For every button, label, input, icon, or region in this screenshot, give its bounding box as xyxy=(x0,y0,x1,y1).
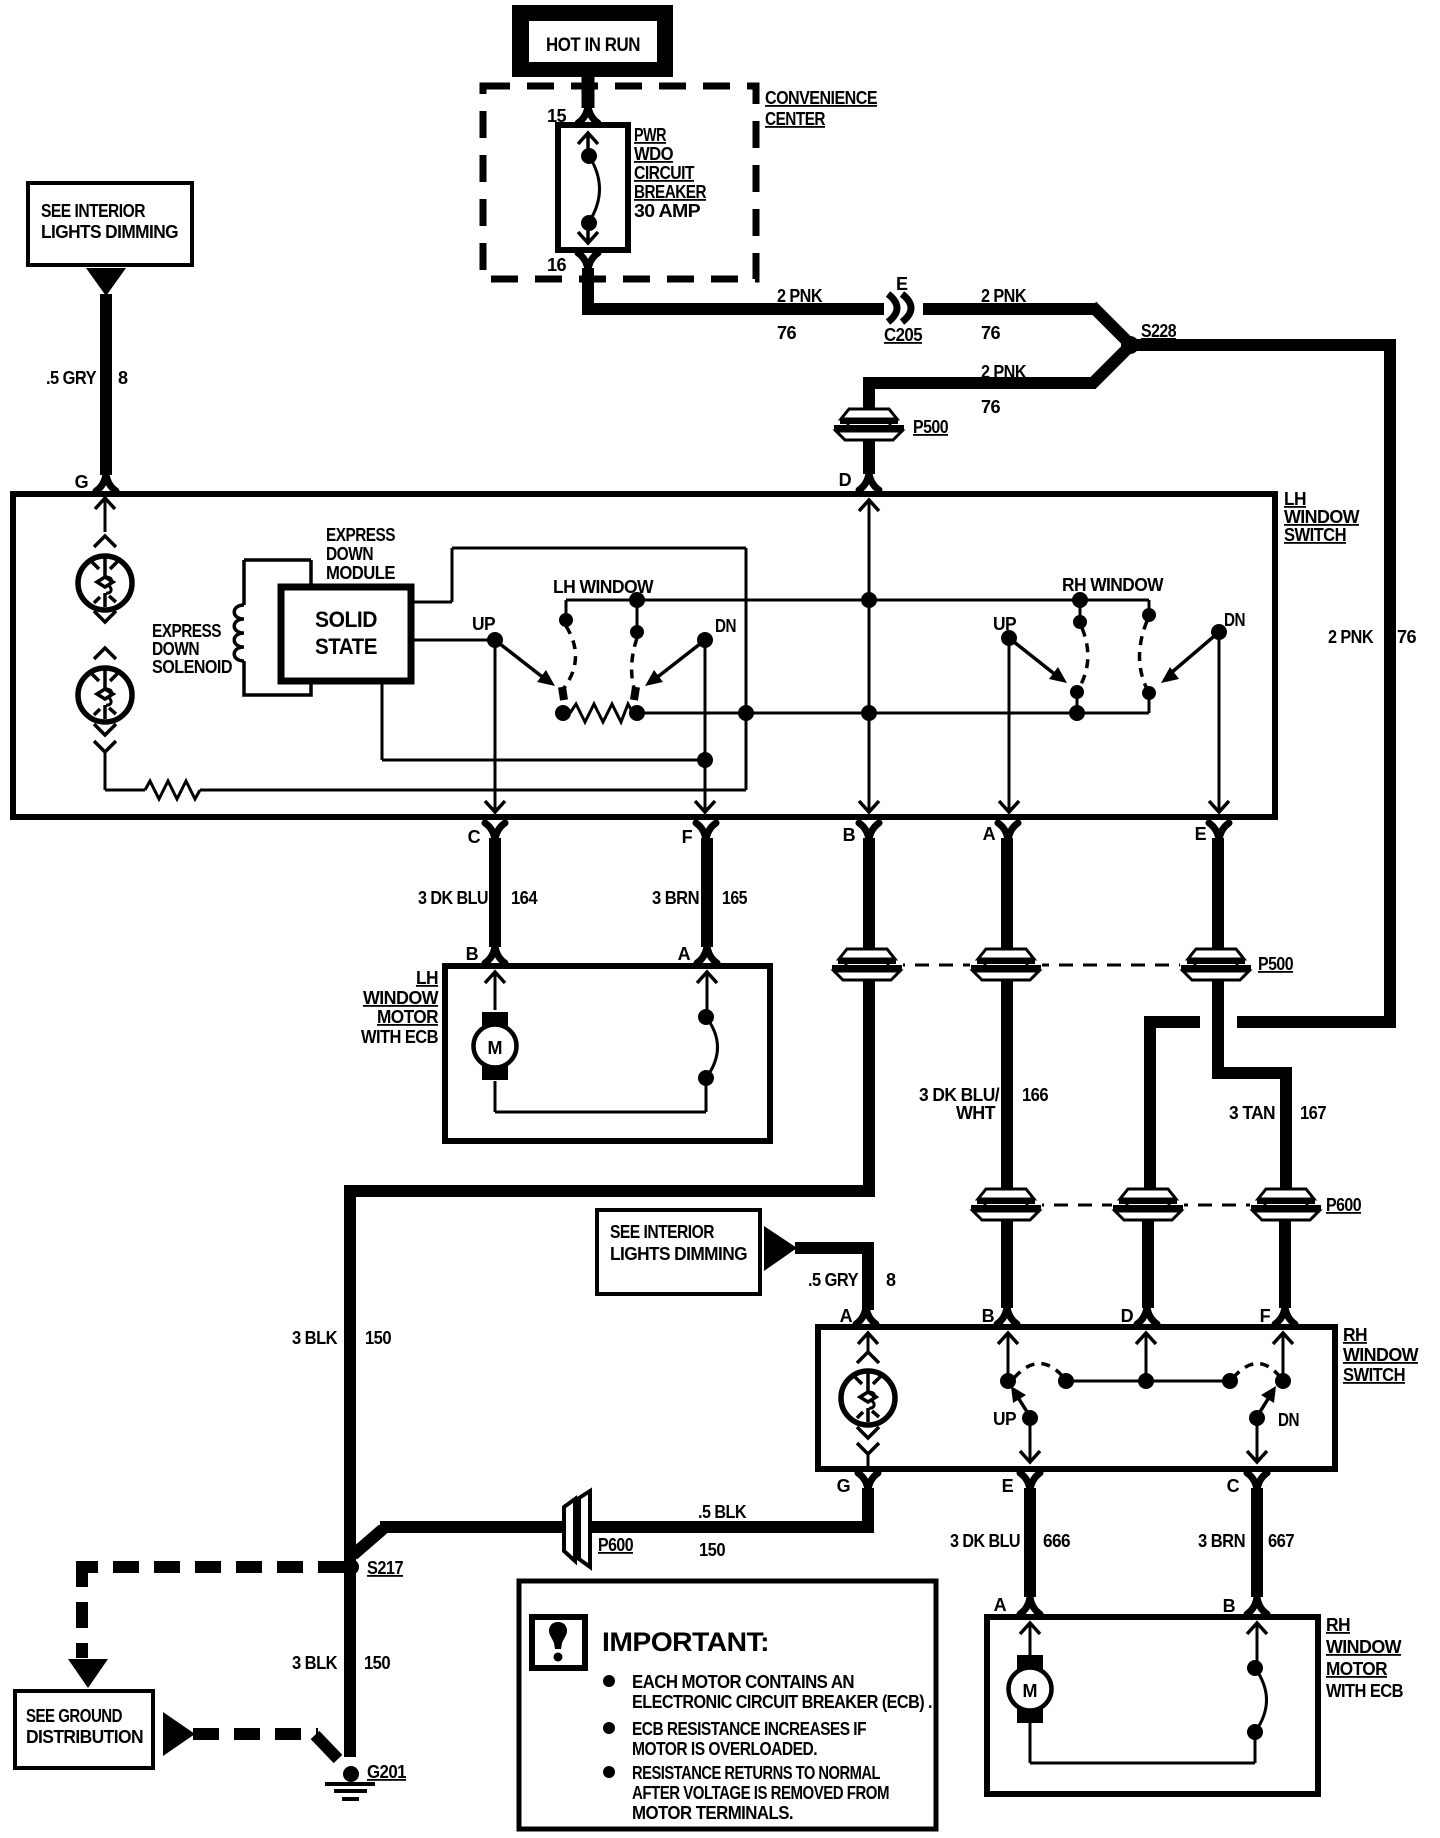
wire label 3 DK BLU/WHT 166 xyxy=(919,1085,1049,1123)
svg-text:P500: P500 xyxy=(1258,954,1294,974)
svg-text:WHT: WHT xyxy=(956,1103,996,1123)
RH window dashed contact arcs xyxy=(1079,621,1147,689)
label PWR WDO CIRCUIT BREAKER 30 AMP xyxy=(634,125,707,221)
svg-text:SWITCH: SWITCH xyxy=(1284,525,1346,545)
LH window motor box xyxy=(445,966,770,1141)
svg-text:LIGHTS DIMMING: LIGHTS DIMMING xyxy=(41,222,178,242)
svg-text:E: E xyxy=(896,274,908,294)
RH switch dashed arc F xyxy=(1233,1364,1281,1379)
svg-text:BREAKER: BREAKER xyxy=(634,182,707,202)
svg-text:3 DK BLU/: 3 DK BLU/ xyxy=(919,1085,1000,1105)
wire terminal A column xyxy=(999,638,1019,812)
svg-text:76: 76 xyxy=(777,323,797,343)
svg-text:HOT IN RUN: HOT IN RUN xyxy=(546,35,640,56)
svg-text:167: 167 xyxy=(1300,1103,1327,1123)
wire label .5 BLK 150 xyxy=(698,1502,747,1560)
connector row P500 xyxy=(831,949,1294,980)
RH window DN contact xyxy=(1142,624,1227,713)
svg-text:D: D xyxy=(839,470,852,490)
inline connector P600 (ground wire) xyxy=(564,1491,634,1567)
wire HOT IN RUN to breaker pin 15 xyxy=(578,77,598,123)
svg-text:DOWN: DOWN xyxy=(326,544,373,564)
svg-text:2 PNK: 2 PNK xyxy=(981,362,1027,382)
svg-text:.5 GRY: .5 GRY xyxy=(808,1270,859,1290)
wire terminal F column xyxy=(695,640,715,812)
RH motor M2 xyxy=(1009,1623,1052,1763)
switch common line (top) xyxy=(559,592,1149,639)
svg-text:2 PNK: 2 PNK xyxy=(1328,627,1374,647)
wire terminal D/B column xyxy=(859,500,879,812)
wire module to contact frame xyxy=(411,601,452,604)
terminal E fork xyxy=(1020,1473,1040,1490)
terminal C fork xyxy=(485,823,505,840)
wire G to ground run .5 BLK xyxy=(353,1488,874,1555)
label RH WINDOW SWITCH xyxy=(1343,1325,1419,1385)
wire terminal E column xyxy=(1209,632,1229,812)
wire 3 BLK 150 S217 to G201 xyxy=(344,1566,356,1757)
wire label .5 GRY 8 xyxy=(46,368,128,388)
RH switch F column and DN contact xyxy=(1247,1333,1293,1462)
RH window UP contact xyxy=(1001,630,1085,721)
svg-text:UP: UP xyxy=(472,614,496,634)
note box IMPORTANT xyxy=(519,1581,936,1829)
wire E of LH switch down to 3 TAN xyxy=(1212,838,1295,1324)
svg-text:B: B xyxy=(466,944,479,964)
svg-text:AFTER VOLTAGE IS REMOVED FROM: AFTER VOLTAGE IS REMOVED FROM xyxy=(632,1783,889,1803)
svg-text:8: 8 xyxy=(886,1270,896,1290)
svg-text:DN: DN xyxy=(1278,1410,1299,1430)
splice S228 xyxy=(1121,321,1177,354)
svg-text:F: F xyxy=(682,827,693,847)
svg-text:LIGHTS DIMMING: LIGHTS DIMMING xyxy=(610,1244,747,1264)
svg-text:WINDOW: WINDOW xyxy=(1343,1345,1419,1365)
svg-text:150: 150 xyxy=(699,1540,726,1560)
svg-text:MOTOR: MOTOR xyxy=(377,1007,439,1027)
connector row P600 xyxy=(970,1189,1362,1220)
wire .5 GRY 8 to RH switch A xyxy=(795,1242,876,1324)
svg-text:G: G xyxy=(837,1476,850,1496)
wire terminal C column xyxy=(485,640,505,812)
splice S217 xyxy=(343,1558,404,1578)
svg-text:D: D xyxy=(1121,1306,1134,1326)
svg-text:LH: LH xyxy=(416,968,438,988)
dashed wire to G201 xyxy=(193,1734,338,1759)
svg-text:3 TAN: 3 TAN xyxy=(1229,1103,1275,1123)
svg-text:150: 150 xyxy=(365,1328,392,1348)
svg-text:WINDOW: WINDOW xyxy=(1326,1637,1402,1657)
LH window UP contact xyxy=(487,632,571,721)
wire label 2 PNK 76 (left of C205) xyxy=(777,286,823,343)
svg-text:164: 164 xyxy=(511,888,538,908)
svg-text:.5 GRY: .5 GRY xyxy=(46,368,97,388)
off-page triangle xyxy=(86,268,126,296)
svg-text:3 BLK: 3 BLK xyxy=(292,1653,338,1673)
svg-text:E: E xyxy=(1002,1476,1014,1496)
svg-text:WDO: WDO xyxy=(634,144,674,164)
svg-text:MODULE: MODULE xyxy=(326,563,396,583)
svg-text:76: 76 xyxy=(1397,627,1417,647)
svg-text:DISTRIBUTION: DISTRIBUTION xyxy=(26,1727,143,1747)
svg-text:F: F xyxy=(1260,1306,1271,1326)
svg-text:EXPRESS: EXPRESS xyxy=(152,621,221,641)
solid state module U1 xyxy=(281,587,411,681)
LH window DN contact xyxy=(629,632,713,721)
svg-text:16: 16 xyxy=(547,255,567,275)
svg-text:CONVENIENCE: CONVENIENCE xyxy=(765,88,878,108)
svg-text:76: 76 xyxy=(981,323,1001,343)
label CONVENIENCE CENTER xyxy=(765,88,878,129)
wire P500 to terminal D xyxy=(859,440,879,490)
RH switch D column and bar xyxy=(1058,1333,1238,1389)
svg-text:666: 666 xyxy=(1043,1531,1071,1551)
svg-text:RH: RH xyxy=(1326,1615,1350,1635)
wire A of LH switch down xyxy=(997,838,1017,1324)
svg-text:SEE INTERIOR: SEE INTERIOR xyxy=(41,201,146,221)
svg-text:WITH ECB: WITH ECB xyxy=(1326,1681,1404,1701)
terminal A fork xyxy=(998,823,1018,840)
svg-text:SEE INTERIOR: SEE INTERIOR xyxy=(610,1222,715,1242)
RH window contact posts xyxy=(1072,592,1156,629)
off-page triangle (right, ground) xyxy=(163,1712,195,1756)
label EXPRESS DOWN MODULE xyxy=(326,525,396,583)
wire label 3 DK BLU 164 xyxy=(418,888,538,908)
wire label 3 TAN 167 xyxy=(1229,1103,1327,1123)
svg-text:P500: P500 xyxy=(913,417,949,437)
svg-text:RH WINDOW: RH WINDOW xyxy=(1062,575,1164,595)
svg-text:UP: UP xyxy=(993,614,1017,634)
svg-text:PWR: PWR xyxy=(634,125,666,145)
svg-text:DOWN: DOWN xyxy=(152,639,199,659)
reference box SEE INTERIOR LIGHTS DIMMING (middle) xyxy=(597,1210,760,1294)
svg-text:E: E xyxy=(1195,824,1207,844)
connector P500 top xyxy=(833,409,949,440)
wire 3 BRN 667 (C to motor B) xyxy=(1247,1488,1267,1614)
circuit breaker PWR WDO 30 AMP xyxy=(558,125,628,250)
terminal G fork xyxy=(858,1473,878,1490)
ground G201 xyxy=(325,1762,407,1799)
LH motor ECB contact xyxy=(495,972,718,1112)
off-page triangle (down) xyxy=(68,1659,108,1688)
svg-text:LH: LH xyxy=(1284,489,1306,509)
wire 2 PNK to RH switch D xyxy=(1137,1016,1396,1324)
RH switch B column and UP contact xyxy=(998,1333,1040,1462)
svg-text:C: C xyxy=(1227,1476,1240,1496)
svg-text:S228: S228 xyxy=(1141,321,1177,341)
terminal E fork xyxy=(1209,823,1229,840)
svg-text:A: A xyxy=(994,1595,1007,1615)
svg-text:3 DK BLU: 3 DK BLU xyxy=(418,888,488,908)
svg-text:MOTOR TERMINALS.: MOTOR TERMINALS. xyxy=(632,1803,793,1823)
illumination lamp chain (from G) xyxy=(78,498,132,790)
svg-text:P600: P600 xyxy=(1326,1195,1362,1215)
label LH WINDOW MOTOR WITH ECB xyxy=(361,968,439,1047)
svg-text:WITH ECB: WITH ECB xyxy=(361,1027,439,1047)
svg-text:SOLID: SOLID xyxy=(315,607,377,632)
express down module outline with solenoid coil xyxy=(234,560,311,695)
svg-text:3 BRN: 3 BRN xyxy=(652,888,699,908)
svg-text:ELECTRONIC CIRCUIT BREAKER (EC: ELECTRONIC CIRCUIT BREAKER (ECB) . xyxy=(632,1692,932,1712)
svg-text:WINDOW: WINDOW xyxy=(1284,507,1360,527)
LH window switch box xyxy=(13,494,1275,817)
svg-text:DN: DN xyxy=(1224,610,1245,630)
svg-text:G201: G201 xyxy=(367,1762,407,1782)
svg-text:B: B xyxy=(982,1306,995,1326)
svg-text:A: A xyxy=(678,944,691,964)
svg-text:3 BLK: 3 BLK xyxy=(292,1328,338,1348)
svg-text:A: A xyxy=(983,824,996,844)
svg-text:30 AMP: 30 AMP xyxy=(634,201,701,221)
wire label 2 PNK 76 (right) xyxy=(1328,627,1417,647)
RH motor ECB contact xyxy=(1030,1623,1267,1763)
svg-text:150: 150 xyxy=(364,1653,391,1673)
wire label 2 PNK 76 xyxy=(981,362,1027,417)
connector C205 pin E xyxy=(884,274,923,345)
reference box SEE INTERIOR LIGHTS DIMMING (left) xyxy=(28,183,192,265)
svg-text:CENTER: CENTER xyxy=(765,109,826,129)
svg-text:WINDOW: WINDOW xyxy=(363,988,439,1008)
wire .5 GRY 8 to terminal G xyxy=(96,294,116,491)
RH switch illumination lamp xyxy=(841,1333,895,1466)
svg-text:STATE: STATE xyxy=(315,634,377,659)
terminal C fork xyxy=(1247,1473,1267,1490)
svg-text:EXPRESS: EXPRESS xyxy=(326,525,395,545)
wire C205 to splice S228 xyxy=(923,306,1133,347)
wire S228 to right edge down (2 PNK 76) xyxy=(1130,339,1390,1022)
wire label 3 BLK 150 xyxy=(292,1328,392,1348)
wire label 3 BLK 150 (lower) xyxy=(292,1653,391,1673)
svg-text:MOTOR IS OVERLOADED.: MOTOR IS OVERLOADED. xyxy=(632,1739,817,1759)
wire module bottom to DN column xyxy=(382,681,713,768)
reference box SEE GROUND DISTRIBUTION xyxy=(15,1691,153,1768)
label EXPRESS DOWN SOLENOID xyxy=(152,621,233,677)
svg-text:.5 BLK: .5 BLK xyxy=(698,1502,747,1522)
svg-text:RESISTANCE RETURNS TO NORMAL: RESISTANCE RETURNS TO NORMAL xyxy=(632,1763,880,1783)
wire breaker pin 16 to C205 xyxy=(578,253,884,315)
off-page triangle (right) xyxy=(764,1226,797,1271)
svg-text:MOTOR: MOTOR xyxy=(1326,1659,1388,1679)
wire label 3 BRN 667 xyxy=(1198,1531,1295,1551)
svg-text:166: 166 xyxy=(1022,1085,1049,1105)
wire label .5 GRY 8 xyxy=(808,1270,896,1290)
svg-text:165: 165 xyxy=(722,888,748,908)
svg-text:3 BRN: 3 BRN xyxy=(1198,1531,1245,1551)
svg-text:P600: P600 xyxy=(598,1535,634,1555)
svg-text:UP: UP xyxy=(993,1409,1017,1429)
wire 3 BRN 165 (F to motor A) xyxy=(697,838,717,963)
wire 3 DK BLU 666 (E to motor A) xyxy=(1020,1488,1040,1614)
resistor (lamp dimming) xyxy=(105,781,746,799)
svg-text:S217: S217 xyxy=(367,1558,404,1578)
label RH WINDOW MOTOR WITH ECB xyxy=(1326,1615,1404,1701)
wire B of LH switch to ground run xyxy=(350,838,875,1566)
wire label 2 PNK 76 xyxy=(981,286,1027,343)
LH motor M1 xyxy=(474,972,517,1112)
svg-text:C205: C205 xyxy=(884,325,923,345)
svg-text:B: B xyxy=(843,825,856,845)
svg-text:EACH MOTOR CONTAINS AN: EACH MOTOR CONTAINS AN xyxy=(632,1672,854,1692)
svg-text:SEE GROUND: SEE GROUND xyxy=(26,1706,122,1726)
terminal F fork xyxy=(696,823,716,840)
label LH WINDOW SWITCH xyxy=(1284,489,1360,545)
wire label 3 BRN 165 xyxy=(652,888,748,908)
svg-text:IMPORTANT:: IMPORTANT: xyxy=(602,1627,769,1657)
wire S228 to P500 xyxy=(869,343,1133,413)
wire 3 DK BLU 164 (C to motor B) xyxy=(485,838,505,963)
svg-text:DN: DN xyxy=(715,616,736,636)
dashed wire S217 to ground distribution xyxy=(82,1561,344,1658)
contact frame lines xyxy=(452,548,746,790)
wire label 3 DK BLU 666 xyxy=(950,1531,1071,1551)
convenience center dashed box xyxy=(483,86,756,279)
svg-text:SOLENOID: SOLENOID xyxy=(152,657,233,677)
wire module to UP contact xyxy=(411,639,495,642)
svg-text:76: 76 xyxy=(981,397,1001,417)
RH window motor box xyxy=(987,1617,1318,1794)
terminal B fork xyxy=(859,823,879,840)
RH window switch box xyxy=(818,1327,1335,1469)
svg-text:B: B xyxy=(1223,1596,1236,1616)
resistor between LH contacts xyxy=(570,704,1149,722)
svg-text:C: C xyxy=(468,827,481,847)
svg-text:3 DK BLU: 3 DK BLU xyxy=(950,1531,1020,1551)
svg-text:SWITCH: SWITCH xyxy=(1343,1365,1405,1385)
svg-text:CIRCUIT: CIRCUIT xyxy=(634,163,695,183)
LH window dashed contact arcs xyxy=(564,626,637,688)
svg-text:8: 8 xyxy=(118,368,128,388)
RH switch dashed arc B xyxy=(1014,1364,1064,1379)
svg-text:RH: RH xyxy=(1343,1325,1367,1345)
svg-text:A: A xyxy=(840,1306,853,1326)
svg-text:667: 667 xyxy=(1268,1531,1295,1551)
fuse box HOT IN RUN xyxy=(512,5,673,77)
svg-text:G: G xyxy=(75,472,88,492)
svg-text:ECB RESISTANCE INCREASES IF: ECB RESISTANCE INCREASES IF xyxy=(632,1719,867,1739)
svg-text:2 PNK: 2 PNK xyxy=(777,286,823,306)
